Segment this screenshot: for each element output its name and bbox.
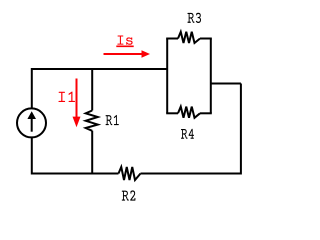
wire bottom rail left segment	[32, 173, 119, 175]
label R1	[106, 115, 119, 125]
wire parallel block left edge	[166, 39, 168, 114]
wire right horizontal (parallel block to right rail)	[211, 83, 241, 85]
resistor R3	[178, 32, 200, 43]
label I1 (red)	[59, 92, 75, 102]
wire parallel block right edge	[210, 39, 212, 114]
resistor R2	[119, 167, 141, 180]
wire R1 branch upper (top rail junction to R1)	[91, 68, 93, 111]
resistor R4	[178, 107, 200, 118]
wire bottom rail right segment	[141, 173, 242, 175]
label Is underline	[116, 45, 133, 47]
wire left vertical lower (current source to bottom rail)	[31, 138, 33, 175]
wire bottom branch right lead	[200, 112, 212, 114]
label R3	[188, 13, 202, 23]
current arrow I1	[73, 79, 81, 128]
label R4	[181, 129, 194, 139]
wire right vertical	[240, 84, 242, 175]
wire R1 branch lower (R1 to bottom rail)	[91, 131, 93, 174]
current source Is circle	[17, 108, 46, 137]
current source arrow	[27, 111, 36, 132]
label R2	[122, 190, 136, 200]
wire top branch right lead	[200, 38, 212, 40]
resistor R1	[86, 111, 98, 131]
wire top branch left lead	[166, 38, 178, 40]
wire left vertical upper (top corner to current source)	[31, 68, 33, 108]
wire bottom branch left lead	[166, 112, 178, 114]
wire top horizontal (source node to parallel block)	[32, 68, 167, 70]
current arrow Is	[104, 50, 151, 57]
label Is (red)	[117, 36, 132, 45]
